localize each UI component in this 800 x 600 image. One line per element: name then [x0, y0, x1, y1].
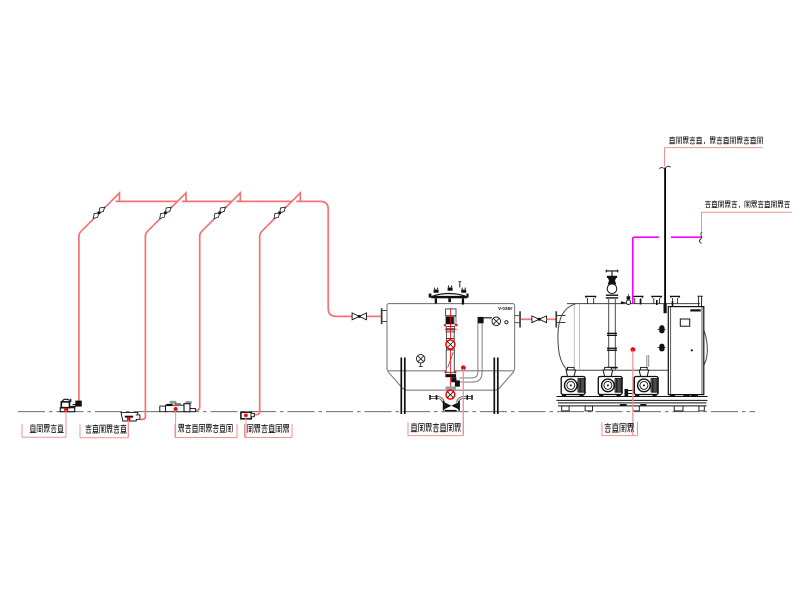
internal discharge pipe grey [460, 322, 483, 383]
text 冷凝水真空界面阀 [179, 424, 184, 432]
nozzle stub N1 pump station top [585, 296, 596, 303]
manifold fitting between pumps [625, 389, 629, 396]
node: separator leader dot [461, 365, 466, 370]
red flange ticks on column [445, 328, 457, 330]
device D1 vacuum interface valve unit [60, 399, 81, 412]
wire red pipe to pump station [547, 318, 556, 320]
label 真空泵站 red bracket and leader [602, 422, 638, 436]
valve V1 branch isolation on diagonal [91, 205, 106, 220]
pump station inlet flange [555, 311, 557, 327]
valve V5 separator inlet [367, 315, 381, 317]
drain left elbow [430, 397, 444, 402]
pipe: suction pipe into tank [609, 299, 616, 370]
cabinet top nozzle [698, 296, 703, 306]
level gauge left [417, 355, 425, 367]
stub fitting marks [641, 299, 673, 306]
internal pump column [444, 309, 458, 372]
pump P3 vacuum pump [634, 367, 659, 396]
text 真空排气管，接至室外高空排放 [669, 136, 675, 143]
label 真空油脂分离器 red bracket and leader [408, 422, 463, 436]
pump station right dished head [700, 322, 708, 370]
relief valve fitting [621, 294, 631, 304]
device D4 building vacuum floor drain [241, 412, 254, 419]
pipe: magenta pressure drain [671, 236, 702, 238]
text 真空界面阀 [30, 424, 36, 432]
label 餐饮真空地漏 red bracket and leader [80, 424, 128, 438]
discharge pipe top fitting [478, 317, 484, 323]
grey flange [446, 387, 456, 390]
red bottom tick marks [445, 371, 447, 373]
cabinet nameplate [690, 309, 700, 311]
nozzle stub N5 pump station top [670, 296, 680, 303]
manhole assembly on separator [429, 282, 469, 305]
wire: red vacuum branch main (sawtooth) [79, 193, 352, 420]
pump P1 vacuum pump [561, 367, 586, 396]
text 真空泵站 [605, 423, 612, 432]
text 压力排水管，接至室外污水井 [705, 201, 711, 208]
wire red pipe to valve V6 [521, 318, 532, 320]
column bottom flange [445, 374, 456, 377]
separator inlet nozzle flange [382, 311, 387, 322]
tank V-038 separator vessel [387, 304, 515, 371]
control cabinet [668, 307, 704, 395]
valve V3 branch isolation on diagonal [212, 205, 227, 220]
drain valve [444, 402, 458, 409]
suction pipe flanges [606, 295, 618, 369]
separator right leg [494, 358, 498, 415]
cabinet display [680, 319, 689, 326]
instruments beside exhaust pipe [659, 325, 664, 333]
cabinet vent slots [670, 395, 698, 397]
separator left leg [401, 358, 405, 415]
valve V7 gate valve with handwheel [606, 270, 617, 294]
valve V4 branch isolation on diagonal [272, 205, 287, 220]
pump station left dished head [558, 304, 576, 370]
svg-text:V-038#: V-038# [498, 306, 513, 311]
label 冷凝水真空界面阀 red bracket and leader [175, 424, 237, 438]
label 真空排气管 annotation leader [665, 148, 763, 167]
device D2 catering vacuum floor drain [121, 412, 140, 421]
node: pump station leader dot [631, 347, 636, 352]
pump P2 vacuum pump [598, 367, 623, 396]
sight glass upper red circle [446, 340, 455, 349]
nozzle stub N4 pump station top [651, 296, 662, 303]
weld seam lines [574, 304, 579, 371]
dip pipe above pump3 [647, 355, 649, 367]
offset fitting [451, 377, 460, 386]
pipe: black vacuum exhaust riser [664, 168, 666, 303]
drain right elbow [458, 397, 472, 402]
tank: vacuum pump station vessel shell [567, 304, 700, 371]
separator conical bottom [388, 371, 515, 390]
skid frame rails [557, 397, 708, 406]
text 真空油脂分离器 [411, 423, 418, 432]
valve V2 branch isolation on diagonal [158, 205, 173, 220]
nozzle stub N3 pump station top [632, 296, 643, 303]
sight glass lower red circle [446, 390, 455, 399]
separator outlet nozzle [515, 316, 520, 323]
label 压力排水管 annotation leader [702, 212, 793, 232]
text 建筑真空地漏 [247, 425, 253, 433]
device D3 condensate vacuum interface valve [160, 401, 196, 412]
skid feet [562, 406, 705, 411]
column red centerline [449, 308, 451, 400]
ground line dash-dot floor datum [18, 411, 755, 413]
valve V6 between tanks [532, 316, 547, 323]
tiny base dimension marks [620, 404, 647, 406]
text 餐饮真空地漏 [86, 425, 92, 433]
label 建筑真空地漏 red bracket and leader [245, 424, 293, 438]
label 真空界面阀 red bracket and leader [22, 424, 66, 438]
vacuum gauge right [492, 317, 508, 326]
